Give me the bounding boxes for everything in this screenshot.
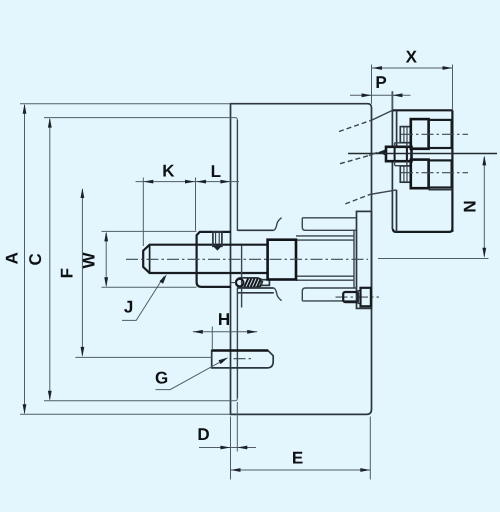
upper screw shank <box>400 127 411 143</box>
main body (cylinder housing) <box>231 104 372 415</box>
dimension X <box>372 67 453 69</box>
mounting bolt head <box>361 288 371 307</box>
set screw cone point <box>213 246 221 250</box>
svg-text:J: J <box>124 298 133 317</box>
mounting bolt shank <box>343 292 358 302</box>
jaw bottom edge <box>393 229 453 232</box>
adapter back plate lines <box>302 218 356 301</box>
body front face line <box>236 120 238 398</box>
svg-text:C: C <box>26 253 45 265</box>
leader G <box>156 359 226 389</box>
svg-text:K: K <box>162 162 175 181</box>
dimension A <box>24 105 26 413</box>
bore top line <box>237 229 273 231</box>
break squiggle bottom <box>274 288 282 301</box>
svg-text:A: A <box>3 252 22 264</box>
svg-text:F: F <box>58 268 77 278</box>
svg-text:H: H <box>218 310 230 329</box>
draw bar end block <box>268 240 296 280</box>
wedge line upper dashed <box>339 120 372 132</box>
set screw <box>213 232 222 246</box>
wedge line upper solid <box>372 110 392 120</box>
jaw top edge <box>392 109 452 111</box>
mounting bolt centerline <box>336 296 380 298</box>
svg-text:E: E <box>292 449 303 468</box>
dimension K <box>136 181 240 183</box>
dimension W <box>105 233 107 286</box>
center tongue tip <box>378 149 387 156</box>
bore bottom lines <box>237 288 273 293</box>
upper T-nut <box>429 120 452 148</box>
tube right end <box>353 230 355 289</box>
lower screw shank <box>400 166 411 182</box>
counterbore line on bar <box>241 246 243 308</box>
leader J <box>122 277 164 321</box>
upper screw head <box>411 119 429 149</box>
svg-text:P: P <box>375 73 386 92</box>
break hook right top <box>302 218 305 231</box>
svg-text:X: X <box>406 48 418 67</box>
dimension H <box>193 331 257 333</box>
upper block bottom edge <box>411 147 453 149</box>
lower screw centerline <box>401 172 468 174</box>
tongue connecting stubs <box>395 143 407 166</box>
jaw base left face lower <box>396 190 398 232</box>
center tongue body <box>386 147 412 161</box>
svg-text:G: G <box>155 368 168 387</box>
draw tube walls <box>296 236 354 280</box>
jaw right edge <box>451 110 453 232</box>
break hook right bottom <box>302 288 305 301</box>
guide plate G <box>212 350 274 368</box>
dimension D <box>199 447 256 449</box>
dimension C <box>49 119 51 400</box>
mounting bolt washer <box>358 291 360 304</box>
svg-text:D: D <box>197 425 209 444</box>
coil spring <box>236 278 262 287</box>
svg-text:N: N <box>461 200 480 212</box>
break squiggle top <box>274 218 282 231</box>
lower screw head <box>411 160 429 189</box>
svg-text:L: L <box>211 162 221 181</box>
upper screw centerline <box>401 133 468 135</box>
dimension L <box>196 180 206 184</box>
wedge line middle dashed <box>340 156 369 164</box>
lower T-nut <box>429 160 452 187</box>
wedge line lower solid <box>370 190 397 195</box>
dimension F <box>81 189 83 356</box>
guide plate top edge thick <box>212 349 268 352</box>
main centerline <box>126 258 368 260</box>
flange (adapter) <box>357 211 372 308</box>
spring plug <box>262 280 270 286</box>
hub outline lines <box>305 230 357 288</box>
sleeve nut on draw bar <box>197 232 231 287</box>
wedge line lower dashed <box>345 194 370 204</box>
guide plate axis <box>234 358 253 360</box>
svg-text:W: W <box>80 252 99 269</box>
jaw base left face upper <box>396 110 398 146</box>
dimension N <box>483 157 485 257</box>
draw bar end face line <box>149 245 151 273</box>
dimension E <box>231 469 371 471</box>
jaw datum line <box>348 153 497 155</box>
dimension P <box>350 94 411 96</box>
wedge line middle solid <box>369 152 377 155</box>
draw bar <box>143 245 267 273</box>
chuck face line <box>391 91 393 229</box>
lower block top edge <box>429 189 453 191</box>
